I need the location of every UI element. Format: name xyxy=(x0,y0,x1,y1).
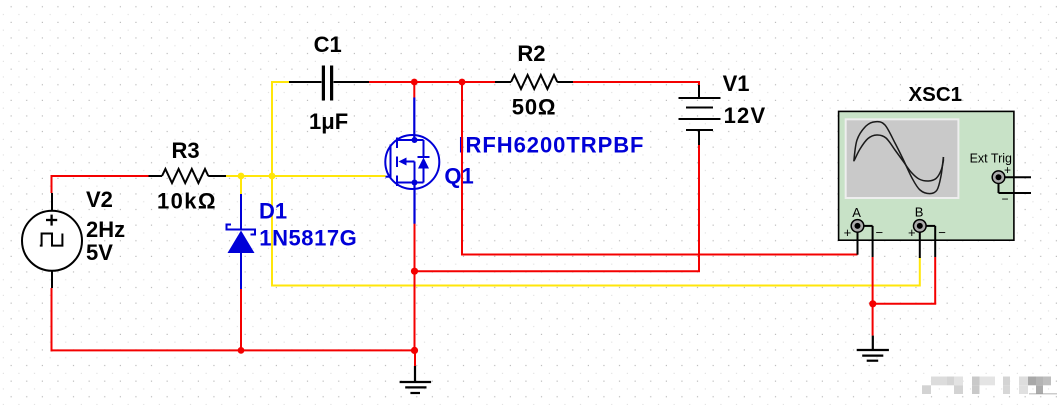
svg-text:B: B xyxy=(915,205,924,220)
svg-text:+: + xyxy=(908,225,916,240)
svg-text:D1: D1 xyxy=(259,199,287,224)
svg-text:V2: V2 xyxy=(86,187,113,212)
svg-text:IRFH6200TRPBF: IRFH6200TRPBF xyxy=(459,133,645,158)
svg-text:5V: 5V xyxy=(86,240,113,265)
svg-text:−: − xyxy=(938,225,946,240)
svg-text:V1: V1 xyxy=(723,71,750,96)
svg-text:2Hz: 2Hz xyxy=(86,217,125,242)
svg-text:A: A xyxy=(852,205,861,220)
svg-text:1μF: 1μF xyxy=(309,109,348,134)
svg-text:R2: R2 xyxy=(517,41,545,66)
svg-text:XSC1: XSC1 xyxy=(909,83,963,106)
svg-text:12V: 12V xyxy=(724,103,767,128)
svg-text:−: − xyxy=(876,225,884,240)
svg-text:Q1: Q1 xyxy=(444,163,473,188)
svg-text:10kΩ: 10kΩ xyxy=(157,189,217,214)
svg-text:−: − xyxy=(1002,192,1009,206)
svg-text:C1: C1 xyxy=(314,32,342,57)
svg-text:R3: R3 xyxy=(172,138,200,163)
svg-text:1N5817G: 1N5817G xyxy=(259,225,357,250)
svg-text:+: + xyxy=(844,225,852,240)
svg-text:50Ω: 50Ω xyxy=(512,95,557,120)
svg-text:+: + xyxy=(1004,163,1011,177)
